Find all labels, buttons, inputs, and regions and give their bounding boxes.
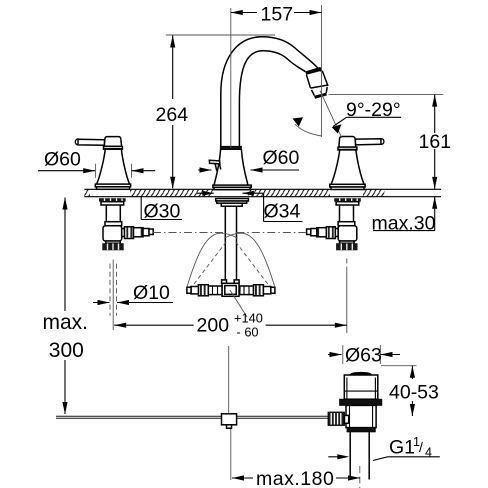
svg-text:Ø60: Ø60: [44, 148, 81, 170]
svg-text:max.180: max.180: [256, 468, 334, 488]
svg-text:161: 161: [419, 131, 452, 153]
svg-text:/: /: [419, 439, 423, 455]
svg-text:Ø60: Ø60: [263, 147, 300, 169]
svg-text:4: 4: [425, 446, 432, 460]
svg-text:Ø34: Ø34: [264, 201, 301, 223]
svg-text:40-53: 40-53: [389, 381, 439, 403]
svg-text:300: 300: [49, 339, 84, 362]
svg-text:Ø10: Ø10: [133, 282, 170, 304]
svg-text:200: 200: [197, 315, 230, 337]
svg-text:Ø63: Ø63: [345, 345, 382, 367]
svg-text:max.: max.: [43, 311, 89, 334]
svg-text:264: 264: [156, 104, 189, 126]
svg-text:max.30: max.30: [372, 212, 436, 234]
svg-text:G1: G1: [389, 437, 415, 459]
svg-text:- 60: - 60: [237, 324, 259, 339]
svg-text:Ø30: Ø30: [144, 201, 181, 223]
svg-text:+140: +140: [234, 310, 263, 325]
svg-text:9°-29°: 9°-29°: [346, 99, 401, 121]
svg-text:157: 157: [261, 3, 294, 25]
